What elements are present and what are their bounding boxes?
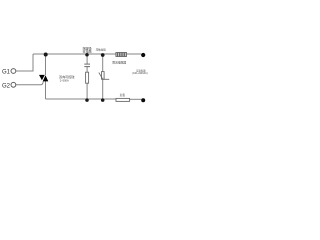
svg-text:负载: 负载 <box>120 93 126 97</box>
node junction snubber top <box>85 53 89 57</box>
wire bottom rail left segment <box>46 98 117 100</box>
capacitor C1 plates <box>84 64 90 67</box>
wire varistor branch lower <box>102 79 104 99</box>
wire top rail left segment <box>33 53 116 55</box>
node AC terminal bottom <box>141 98 145 102</box>
resistor R3 load box <box>116 98 130 101</box>
wire G2 lead to gate <box>16 81 44 85</box>
wire G1 lead and riser <box>16 54 33 71</box>
resistor R1 snubber box <box>86 72 89 83</box>
node junction triac top <box>44 53 48 57</box>
triac Q1 triangles <box>39 75 48 82</box>
wire snubber branch upper <box>86 54 88 64</box>
wire triac MT1 lead down <box>45 81 47 99</box>
svg-text:2~500A: 2~500A <box>60 78 69 82</box>
svg-text:收电路: 收电路 <box>83 49 92 54</box>
terminal G1 <box>11 69 16 74</box>
svg-text:交流电源: 交流电源 <box>136 68 146 72</box>
svg-text:(100~240VAC): (100~240VAC) <box>132 72 148 75</box>
wire snubber branch lower <box>86 83 88 99</box>
resistor R2 current limit box <box>116 53 127 57</box>
svg-text:限流电阻器: 限流电阻器 <box>112 61 126 65</box>
resistor R2 hatch ticks <box>118 53 125 57</box>
node junction varistor bottom <box>101 98 105 102</box>
wire varistor branch upper <box>102 54 104 72</box>
svg-text:G2: G2 <box>2 83 11 89</box>
node AC terminal top <box>141 53 145 57</box>
svg-text:G1: G1 <box>2 70 11 76</box>
terminal G2 <box>11 82 16 87</box>
varistor RV1 diagonal stroke <box>99 73 109 80</box>
node junction varistor top <box>101 53 105 57</box>
varistor RV1 box <box>102 72 105 80</box>
wire triac vertical MT2 lead <box>45 54 47 75</box>
wire top rail right segment <box>127 53 142 55</box>
svg-text:压敏电阻: 压敏电阻 <box>96 47 107 51</box>
wire snubber branch mid <box>86 67 88 73</box>
wire bottom rail right segment <box>130 98 142 100</box>
node junction snubber bottom <box>85 98 89 102</box>
